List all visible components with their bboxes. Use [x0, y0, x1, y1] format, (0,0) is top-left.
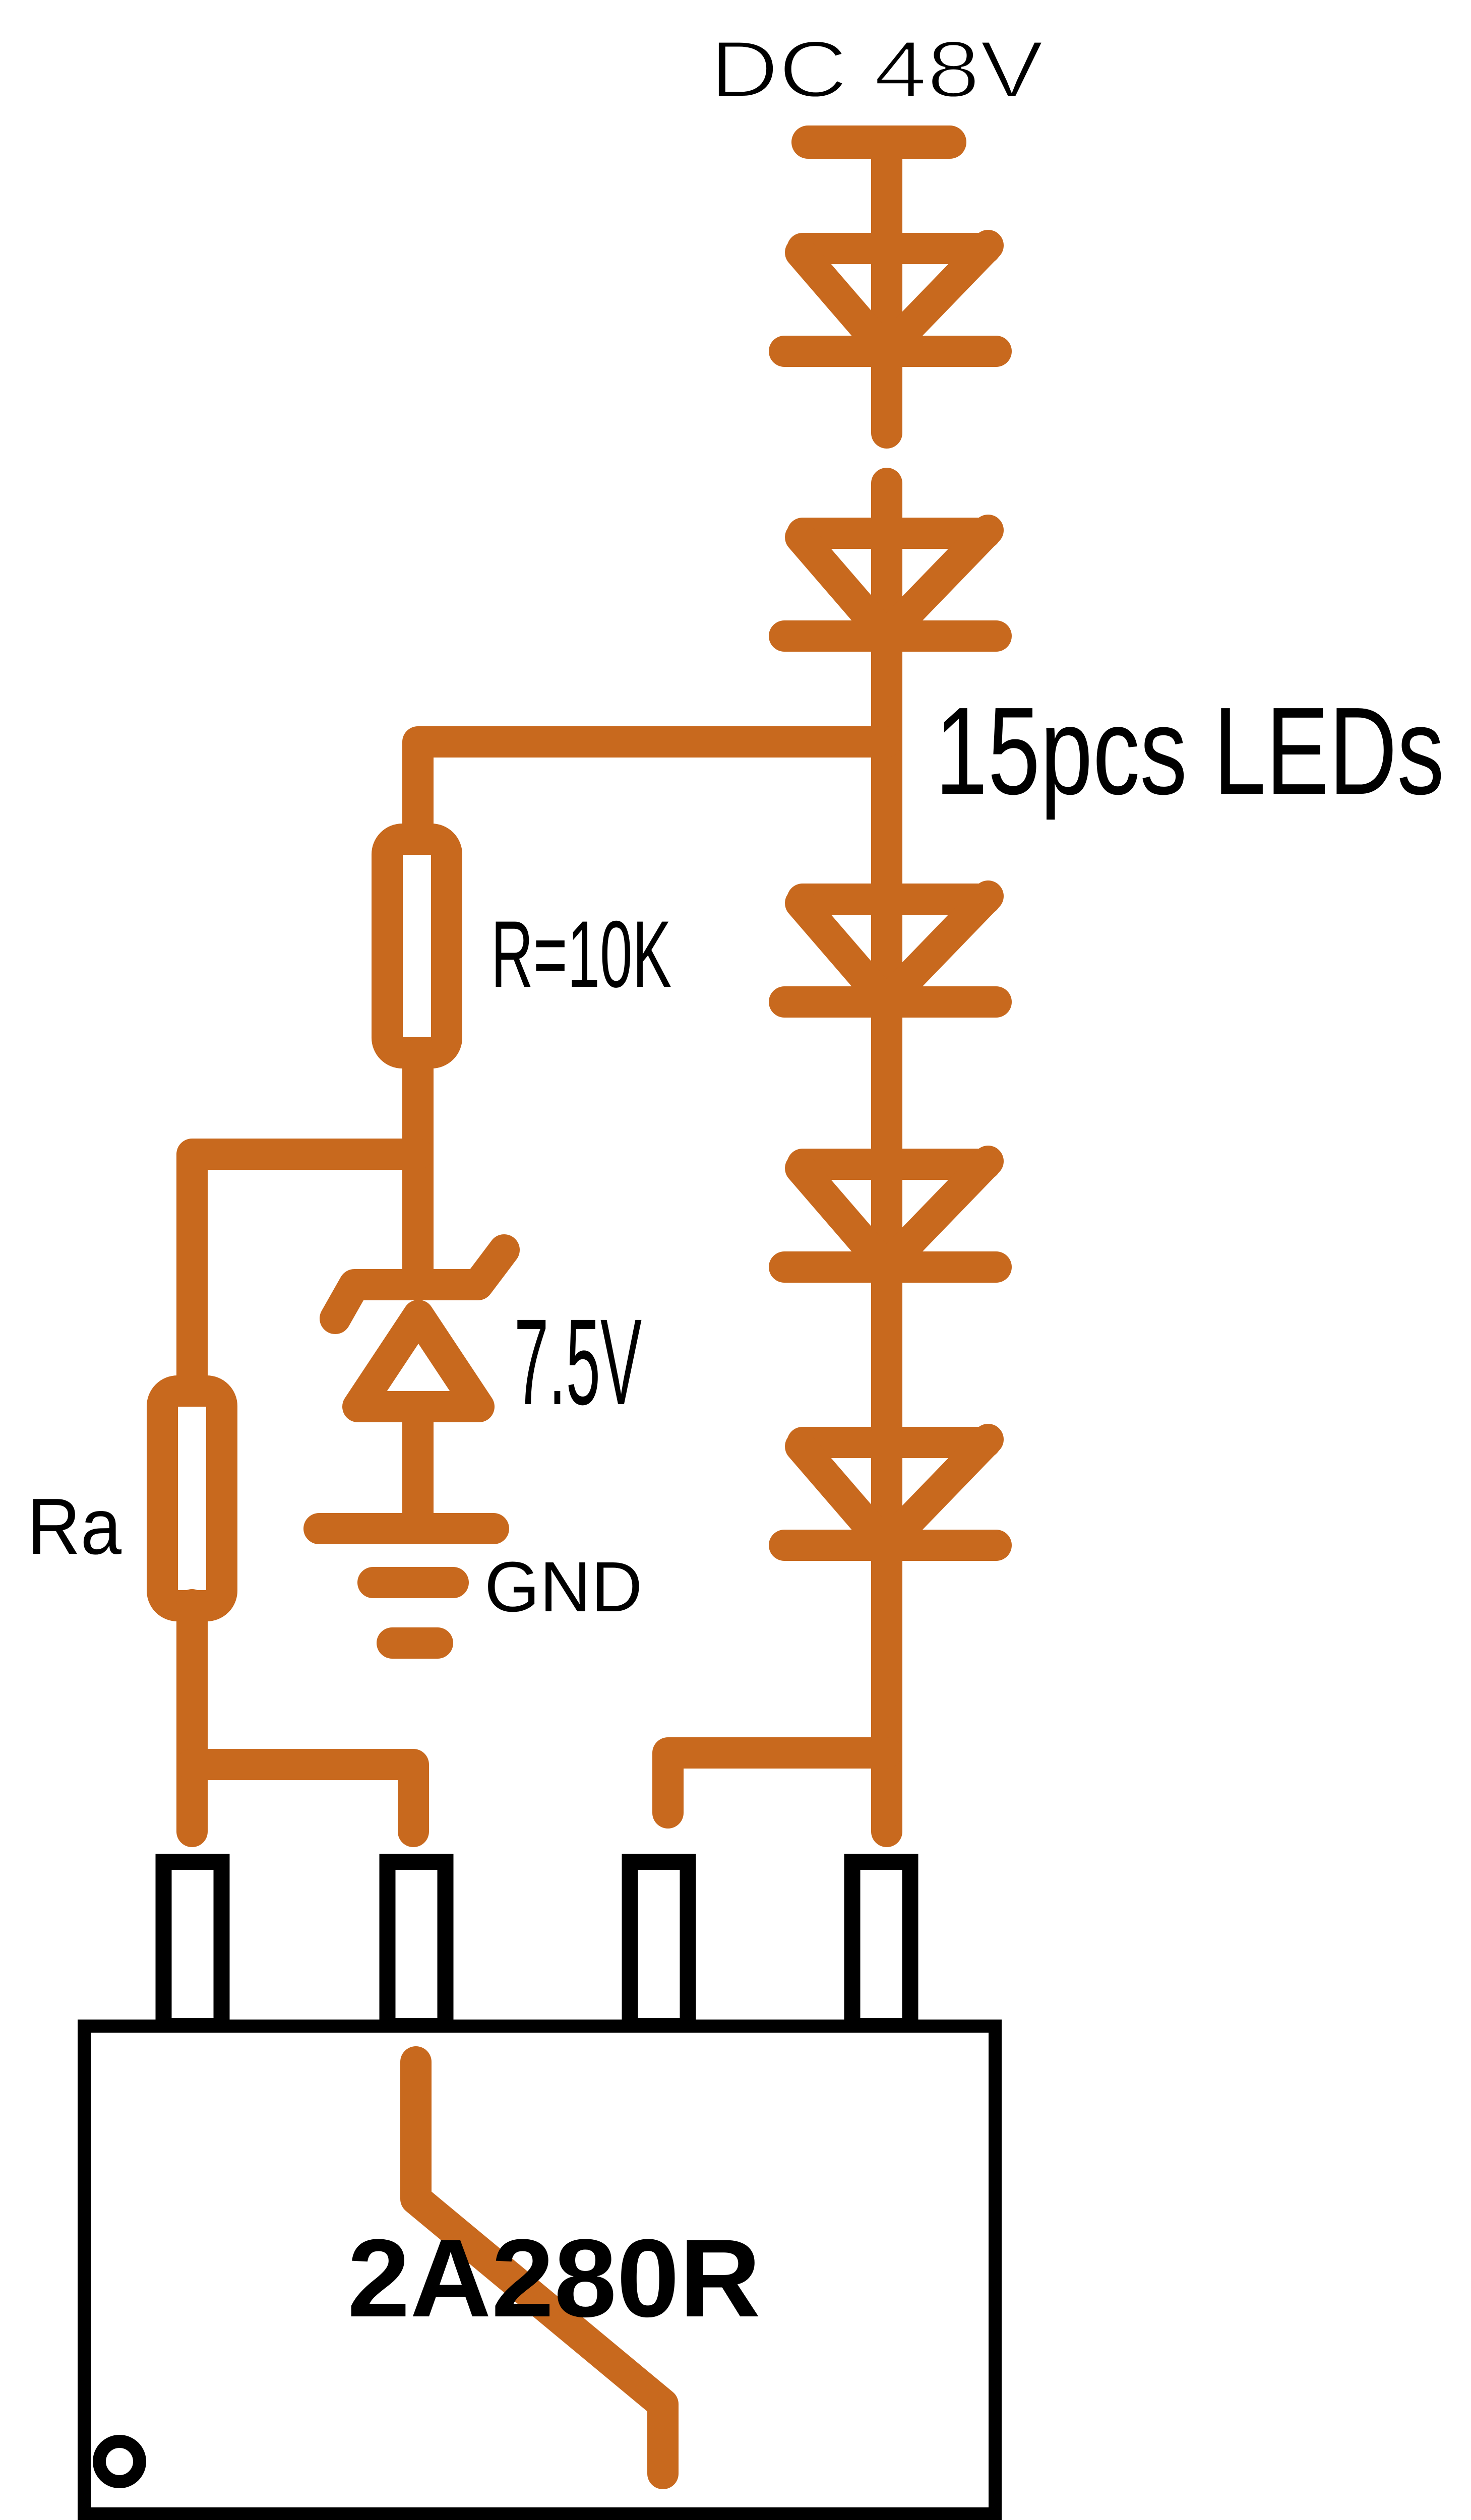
svg-text:Ra: Ra: [27, 1482, 121, 1571]
svg-text:DC 48V: DC 48V: [710, 24, 1044, 114]
svg-text:2A280R: 2A280R: [347, 2216, 761, 2340]
svg-text:R=10K: R=10K: [491, 901, 671, 1007]
svg-text:7.5V: 7.5V: [514, 1294, 642, 1430]
svg-text:GND: GND: [484, 1547, 642, 1626]
svg-text:15pcs LEDs: 15pcs LEDs: [935, 681, 1444, 821]
